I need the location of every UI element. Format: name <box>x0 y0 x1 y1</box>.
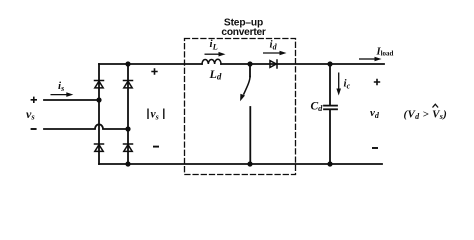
wire: source bottom lead with hop over left leg <box>44 124 128 129</box>
svg-text:Cd: Cd <box>311 101 324 114</box>
svg-text:is: is <box>58 80 64 93</box>
plus sign (bridge output) <box>151 68 157 74</box>
svg-text:Ld: Ld <box>209 67 222 82</box>
minus sign (bridge output) <box>153 146 159 148</box>
arrow: is current <box>51 94 68 96</box>
switch blade arrowhead <box>240 94 245 102</box>
junction dot: right leg / top rail <box>125 61 130 66</box>
hat over Vs in formula <box>433 104 439 107</box>
capacitor Cd top lead <box>329 64 331 105</box>
junction dot: right leg / bottom rail <box>125 161 130 166</box>
arrow: I load current <box>359 58 375 60</box>
svg-text:(Vd > Vs): (Vd > Vs) <box>404 108 448 121</box>
plus sign (source) <box>31 97 37 103</box>
minus sign (source) <box>31 128 37 130</box>
wire: top rail right segment (inductor to right end) <box>221 63 384 65</box>
wire: bottom rail <box>99 163 382 165</box>
junction dot: source top / left leg <box>96 97 101 102</box>
label: |vs| <box>148 109 164 122</box>
inductor Ld coil <box>202 59 221 64</box>
svg-text:iL: iL <box>210 38 218 51</box>
junction dot: boost node (inductor-switch-diode) <box>247 61 252 66</box>
diode D4 (lower right, pointing up) <box>124 144 133 151</box>
svg-text:converter: converter <box>221 27 265 38</box>
svg-text:vs: vs <box>151 109 159 122</box>
switch lower contact wire <box>249 107 251 164</box>
wire: top rail left segment (bridge top to inductor) <box>99 63 202 65</box>
boost diode D (pointing right) <box>270 60 277 68</box>
plus sign (output vd) <box>374 79 380 85</box>
svg-text:Iload: Iload <box>376 47 394 58</box>
arrow: id current <box>263 52 280 54</box>
capacitor Cd bottom lead <box>329 110 331 164</box>
svg-text:ic: ic <box>344 78 351 91</box>
dashed boundary box of step-up converter <box>185 39 296 175</box>
switch: top stub from node <box>249 64 251 77</box>
junction dot: switch bottom / bottom rail <box>247 161 252 166</box>
capacitor Cd plates <box>324 105 337 107</box>
wire: source top lead <box>44 99 99 101</box>
svg-text:vd: vd <box>370 107 380 120</box>
minus sign (output vd) <box>372 147 378 149</box>
wire: bridge left leg <box>98 64 100 164</box>
diode D3 (lower left, pointing up) <box>95 144 104 151</box>
diode D2 (upper right, pointing up) <box>124 81 133 88</box>
svg-text:vs: vs <box>26 107 35 122</box>
svg-text:id: id <box>270 39 278 52</box>
junction dot: capacitor top / top rail <box>327 61 332 66</box>
arrow: ic current (down) <box>338 73 340 90</box>
junction dot: capacitor bottom / bottom rail <box>327 161 332 166</box>
junction dot: source bottom / right leg <box>125 126 130 131</box>
switch blade (diagonal with arrowhead) <box>244 77 250 95</box>
arrow: iL current <box>205 53 220 55</box>
wire: bridge right leg <box>127 64 129 164</box>
diode D1 (upper left, pointing up) <box>95 81 104 88</box>
